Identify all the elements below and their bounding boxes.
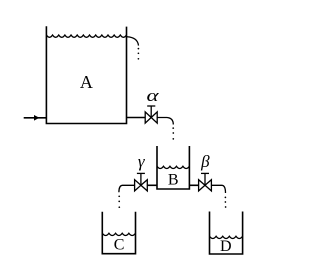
inlet arrowhead xyxy=(34,115,39,121)
pipe from valve gamma toward tank C xyxy=(119,185,135,192)
inlet arrow line xyxy=(24,117,47,119)
tank A xyxy=(46,26,126,123)
dotted drop into tank B xyxy=(172,127,174,139)
water line tank B xyxy=(157,166,189,168)
overflow pipe curve tank A xyxy=(127,37,139,46)
pipe A outlet to valve alpha xyxy=(127,117,146,119)
svg-text:A: A xyxy=(80,72,93,92)
dotted drop into tank D xyxy=(225,197,227,208)
svg-text:B: B xyxy=(168,172,179,189)
pipe tank B to valve beta xyxy=(189,184,198,186)
tank B xyxy=(157,146,189,189)
water line tank A xyxy=(46,35,126,37)
svg-text:α: α xyxy=(147,86,160,105)
water line tank D xyxy=(210,236,243,238)
valve alpha xyxy=(145,106,157,123)
dotted drop into tank C xyxy=(118,195,120,208)
svg-text:β: β xyxy=(200,152,210,171)
pipe after valve alpha into B xyxy=(157,118,173,125)
valve gamma xyxy=(135,173,148,191)
pipe valve gamma to tank B xyxy=(147,184,157,186)
pipe from valve beta toward tank D xyxy=(211,185,225,193)
tank C xyxy=(102,212,135,254)
dotted drop from overflow xyxy=(138,48,140,60)
svg-text:D: D xyxy=(220,238,232,255)
svg-text:γ: γ xyxy=(138,152,146,171)
water line tank C xyxy=(102,233,135,235)
tank D xyxy=(210,212,243,255)
valve beta xyxy=(199,173,212,191)
svg-text:C: C xyxy=(114,237,125,254)
